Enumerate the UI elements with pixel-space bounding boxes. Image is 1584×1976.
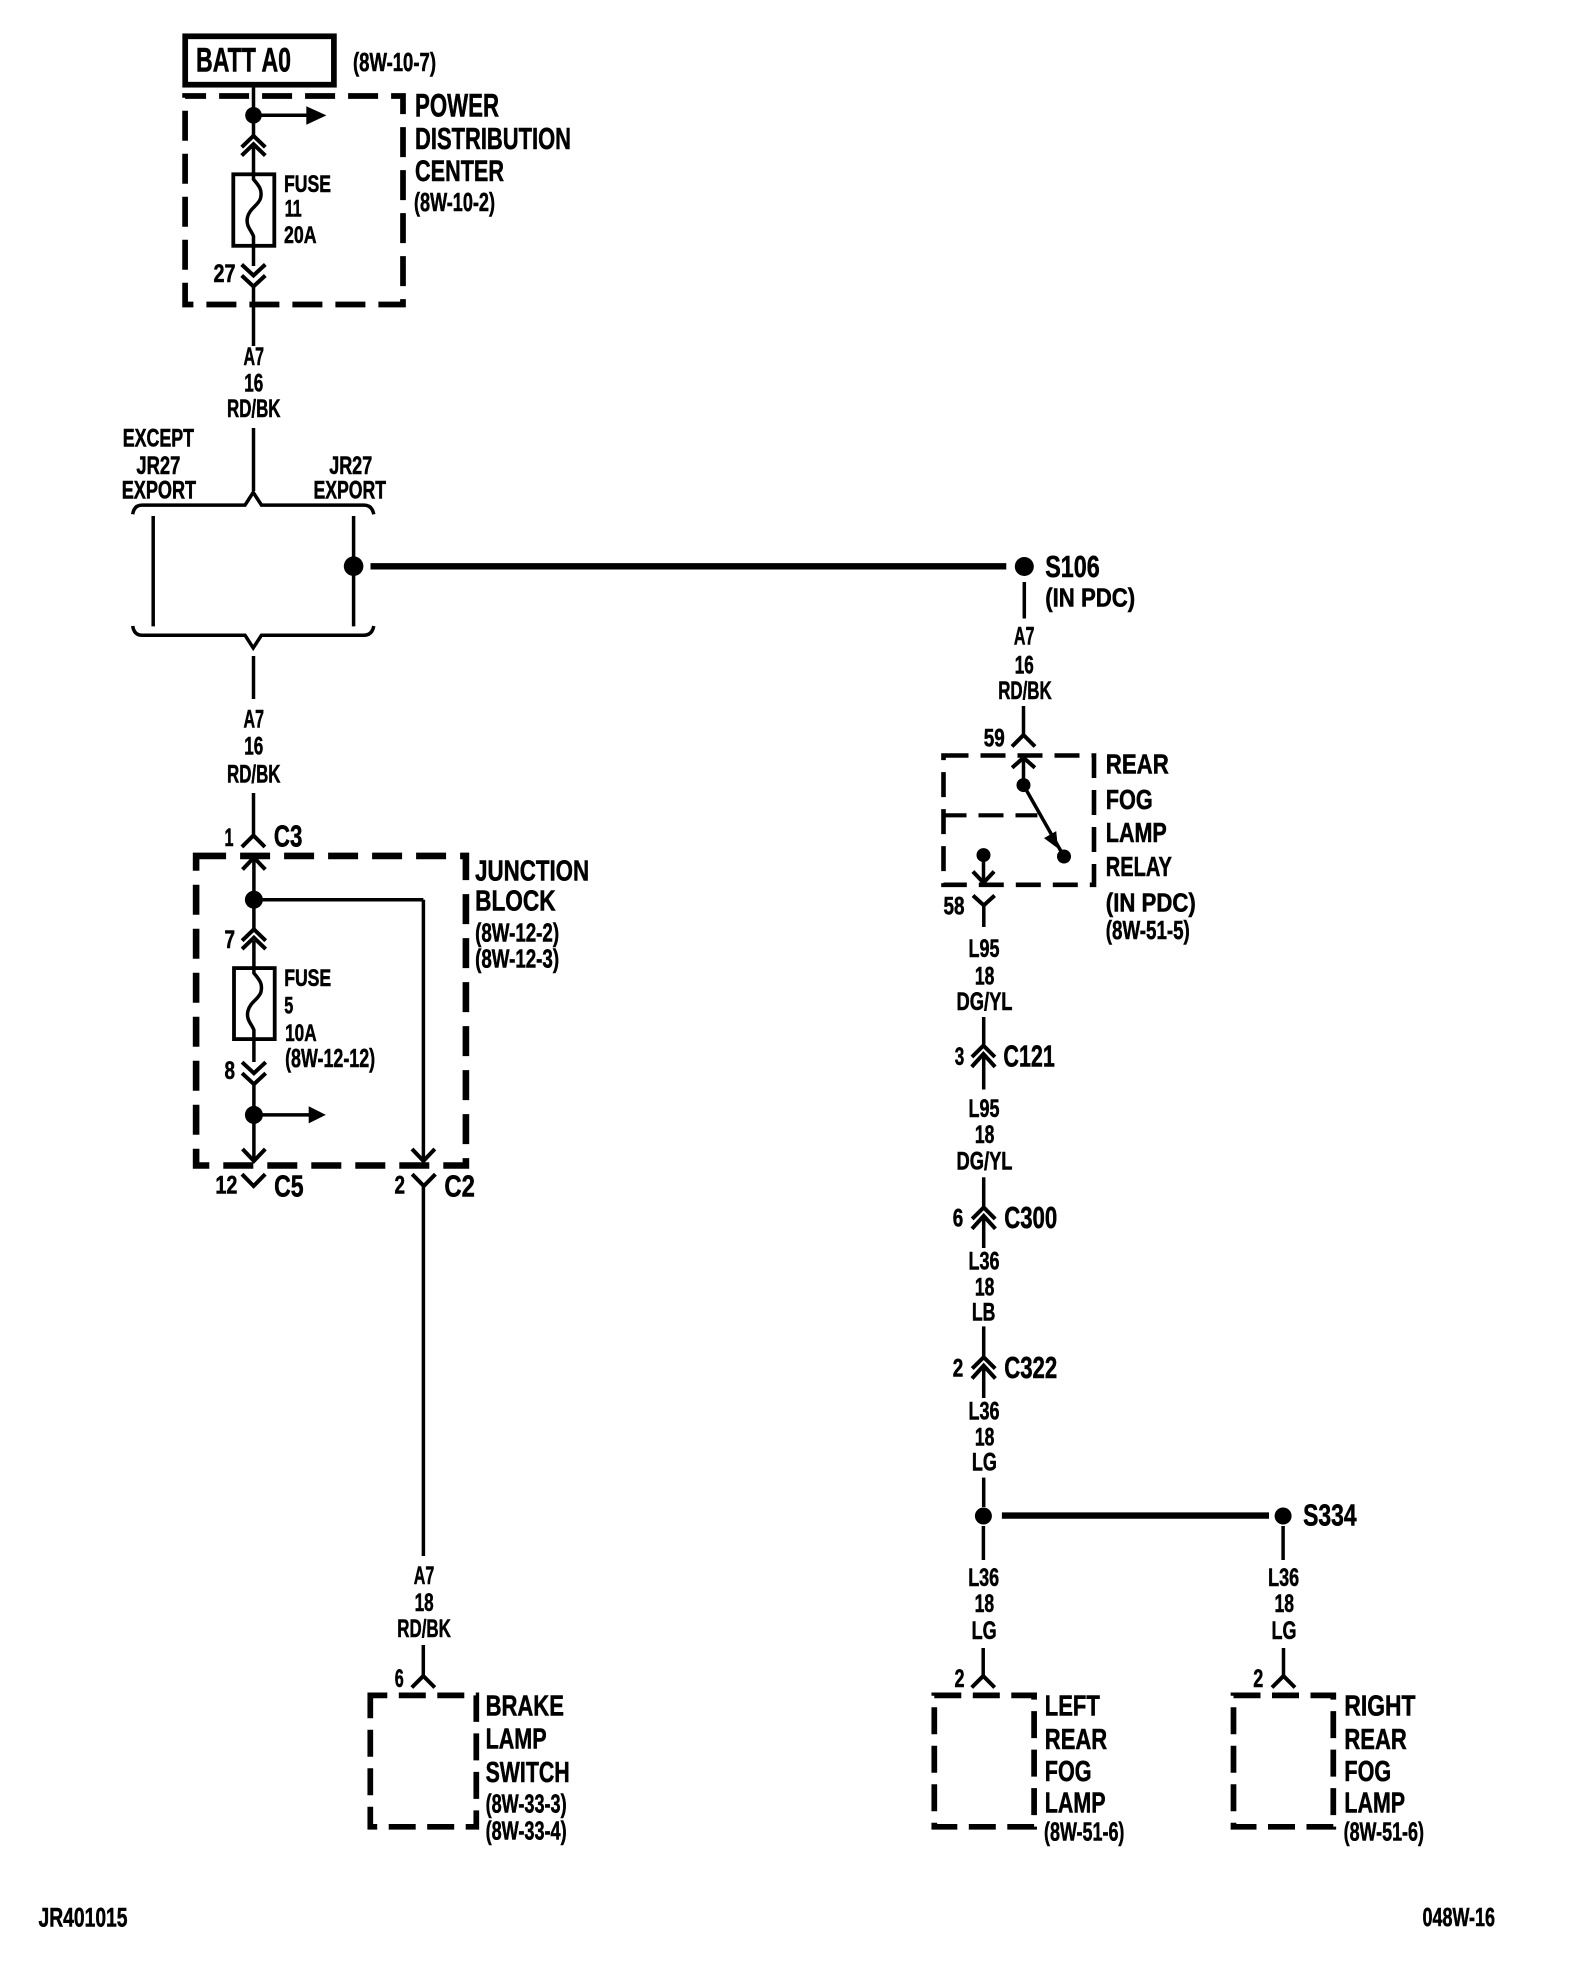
svg-text:6: 6 [953, 1205, 964, 1233]
svg-text:RD/BK: RD/BK [227, 395, 281, 423]
svg-text:C121: C121 [1003, 1038, 1055, 1073]
fuse value labels FUSE 11 20A [284, 171, 331, 249]
bottom merge brace [133, 626, 374, 648]
svg-text:16: 16 [244, 370, 263, 398]
pin 27 chevrons (double down) [242, 265, 266, 287]
right rear fog lamp dashed box [1234, 1695, 1334, 1826]
wire to C322 [982, 1326, 986, 1357]
wire to top brace [252, 428, 256, 491]
battery feed box BATT A0 [185, 36, 334, 84]
svg-text:2: 2 [395, 1172, 406, 1200]
wire leaving PDC [252, 288, 256, 347]
label JUNCTION BLOCK [475, 855, 589, 973]
svg-text:LAMP: LAMP [1045, 1787, 1106, 1819]
svg-text:REAR: REAR [1106, 748, 1169, 779]
exit arrow C5 [243, 1149, 266, 1161]
svg-text:59: 59 [984, 725, 1005, 753]
relay switch arm [1024, 785, 1063, 853]
label REAR FOG LAMP RELAY (IN PDC) (8W-51-5) [1106, 748, 1196, 945]
wire label A7 16 RD/BK (right) [998, 622, 1051, 705]
wire BATT box to node [252, 87, 256, 111]
wire fuse to pin 27 chevrons [252, 246, 256, 266]
right lamp pin 2 chevron [1272, 1676, 1295, 1688]
connector C121 chevrons pin 3 [972, 1046, 995, 1067]
cavity 8 chevrons (double down) [242, 1062, 266, 1084]
connector C322 chevrons pin 2 [972, 1357, 995, 1378]
splice S334 [1275, 1508, 1292, 1525]
node on JR27 branch [344, 556, 364, 576]
connector C3 chevron pin 1 [242, 835, 265, 847]
wire node to fuse cavity 7 [252, 903, 256, 929]
svg-text:18: 18 [1275, 1590, 1295, 1618]
svg-text:FUSE: FUSE [284, 171, 331, 198]
entry arrow into junction block [243, 858, 266, 893]
wire C322 down [982, 1366, 986, 1398]
wire node to C5 exit [252, 1119, 256, 1160]
svg-text:(8W-33-4): (8W-33-4) [486, 1816, 567, 1846]
wire C300 down [982, 1216, 986, 1248]
svg-text:(8W-51-5): (8W-51-5) [1106, 915, 1190, 945]
connector C5 chevron pin 12 [242, 1174, 265, 1186]
svg-text:18: 18 [975, 1590, 995, 1618]
svg-text:5: 5 [284, 993, 293, 1020]
pin 58 connector chevron [973, 896, 995, 928]
svg-text:(8W-10-2): (8W-10-2) [414, 187, 495, 217]
relay entry arrow pin 59 [1012, 758, 1035, 779]
svg-text:JR401015: JR401015 [39, 1903, 128, 1933]
svg-text:RELAY: RELAY [1106, 851, 1172, 882]
svg-text:1: 1 [225, 824, 234, 852]
svg-text:REAR: REAR [1045, 1724, 1107, 1756]
svg-text:RIGHT: RIGHT [1344, 1691, 1415, 1723]
svg-text:L36: L36 [1268, 1564, 1299, 1592]
svg-text:DISTRIBUTION: DISTRIBUTION [415, 121, 571, 156]
svg-text:LG: LG [972, 1449, 997, 1477]
svg-text:16: 16 [1015, 652, 1034, 680]
svg-text:EXCEPT: EXCEPT [123, 424, 194, 452]
svg-text:SWITCH: SWITCH [486, 1757, 570, 1789]
svg-text:REAR: REAR [1344, 1724, 1406, 1756]
wire fuse to cavity 8 [252, 1039, 256, 1062]
svg-text:DG/YL: DG/YL [957, 1148, 1013, 1176]
svg-text:LG: LG [972, 1617, 997, 1645]
svg-text:(8W-33-3): (8W-33-3) [486, 1788, 567, 1818]
node inside junction block [245, 891, 263, 909]
svg-text:048W-16: 048W-16 [1423, 1902, 1496, 1932]
wire label A7 18 RD/BK [397, 1562, 451, 1643]
wire label A7 16 RD/BK (first) [227, 343, 281, 423]
svg-text:2: 2 [953, 1354, 964, 1382]
svg-text:18: 18 [975, 962, 995, 990]
junction block dashed box [196, 856, 466, 1166]
wire to right lamp pin 2 [1282, 1648, 1286, 1676]
svg-text:LAMP: LAMP [486, 1724, 547, 1756]
power distribution center dashed box [185, 96, 403, 305]
svg-text:20A: 20A [284, 222, 317, 249]
label S106 (IN PDC) [1045, 549, 1135, 613]
wire to C3 [252, 793, 256, 835]
relay exit arrow pin 58 [973, 858, 994, 883]
connector C300 chevrons pin 6 [972, 1208, 995, 1229]
svg-text:8: 8 [225, 1057, 236, 1085]
svg-text:JUNCTION: JUNCTION [475, 855, 589, 887]
label LEFT REAR FOG LAMP (8W-51-6) [1044, 1691, 1124, 1847]
wire to C300 [982, 1177, 986, 1207]
wire label A7 16 RD/BK (second) [227, 705, 281, 788]
wire label L95 18 DG/YL (second) [957, 1095, 1013, 1176]
connector C2 chevron pin 2 [412, 1174, 435, 1186]
svg-text:FOG: FOG [1106, 784, 1153, 815]
svg-text:CENTER: CENTER [415, 155, 504, 188]
svg-text:3: 3 [955, 1043, 965, 1071]
wire below merge brace [252, 656, 256, 699]
svg-text:LAMP: LAMP [1344, 1787, 1405, 1819]
svg-text:C5: C5 [274, 1169, 304, 1204]
rear fog lamp relay dashed box [944, 756, 1095, 885]
svg-text:C3: C3 [274, 819, 303, 854]
svg-text:S334: S334 [1303, 1498, 1357, 1533]
wire to splice S334 line [982, 1478, 986, 1507]
svg-text:(8W-51-6): (8W-51-6) [1344, 1817, 1424, 1847]
svg-text:18: 18 [975, 1423, 995, 1451]
svg-text:2: 2 [1253, 1665, 1263, 1693]
node in PDC [245, 107, 262, 124]
svg-text:RD/BK: RD/BK [397, 1615, 451, 1643]
wire label L36 18 LB [969, 1248, 1000, 1327]
label RIGHT REAR FOG LAMP (8W-51-6) [1344, 1691, 1424, 1847]
svg-text:BLOCK: BLOCK [475, 885, 556, 917]
relay internal divider (dashed) [942, 813, 1038, 817]
svg-text:L36: L36 [969, 1248, 1000, 1276]
svg-text:POWER: POWER [415, 88, 499, 124]
svg-text:LG: LG [1272, 1617, 1297, 1645]
svg-text:6: 6 [395, 1665, 404, 1693]
svg-text:LAMP: LAMP [1106, 817, 1167, 848]
option label EXCEPT JR27 EXPORT [122, 424, 196, 504]
wire to C121 [982, 1017, 986, 1046]
left rear fog lamp dashed box [934, 1695, 1034, 1826]
svg-text:16: 16 [244, 732, 263, 760]
svg-text:L36: L36 [968, 1564, 999, 1592]
svg-text:(8W-51-6): (8W-51-6) [1044, 1817, 1124, 1847]
svg-text:(8W-12-12): (8W-12-12) [285, 1043, 375, 1073]
svg-text:18: 18 [975, 1274, 995, 1302]
svg-text:BRAKE: BRAKE [486, 1691, 564, 1723]
wire label L36 18 LG (left lamp) [968, 1564, 999, 1645]
svg-text:C2: C2 [444, 1169, 475, 1204]
svg-text:L95: L95 [969, 1095, 1000, 1123]
brake lamp switch dashed box [370, 1695, 476, 1826]
svg-text:DG/YL: DG/YL [957, 988, 1013, 1016]
wire chevrons to fuse 5 [252, 941, 256, 970]
label POWER DISTRIBUTION CENTER [414, 88, 571, 218]
wire label L95 18 DG/YL [957, 935, 1013, 1016]
left lamp pin 2 chevron [972, 1676, 995, 1688]
svg-text:27: 27 [214, 260, 236, 288]
svg-text:12: 12 [215, 1172, 237, 1200]
svg-text:LEFT: LEFT [1045, 1691, 1100, 1723]
relay contact [1057, 850, 1071, 864]
fuse 11 20A [233, 174, 274, 246]
fuse labels FUSE 5 10A (8W-12-12) [284, 965, 375, 1073]
label BRAKE LAMP SWITCH [486, 1691, 570, 1846]
svg-text:FOG: FOG [1344, 1756, 1391, 1788]
pin 59 chevron [1012, 735, 1035, 747]
svg-text:(8W-12-3): (8W-12-3) [475, 944, 559, 974]
cavity 7 chevrons [242, 929, 266, 949]
svg-text:2: 2 [955, 1665, 965, 1693]
svg-text:EXPORT: EXPORT [122, 476, 196, 504]
svg-text:18: 18 [975, 1121, 995, 1149]
svg-text:A7: A7 [244, 705, 265, 733]
wire left lamp drop [982, 1526, 986, 1560]
wire label L36 18 LG (right lamp) [1268, 1564, 1299, 1645]
wire node to C2 branch (horizontal) [254, 898, 424, 902]
wire left branch [151, 516, 155, 626]
node left of S334 [975, 1508, 992, 1525]
svg-text:A7: A7 [244, 343, 265, 371]
svg-text:A7: A7 [1014, 622, 1035, 650]
wire S106 down [1023, 582, 1027, 619]
svg-text:11: 11 [285, 196, 302, 223]
arrow to other circuits (junction block) [259, 1106, 326, 1123]
svg-text:(IN PDC): (IN PDC) [1106, 888, 1196, 918]
svg-text:58: 58 [944, 892, 965, 920]
wire label L36 18 LG [969, 1397, 1000, 1476]
option label JR27 EXPORT [314, 452, 387, 505]
fuse 5 10A [234, 968, 275, 1039]
svg-text:(IN PDC): (IN PDC) [1045, 583, 1135, 613]
svg-text:L36: L36 [969, 1397, 1000, 1425]
svg-text:(8W-10-7): (8W-10-7) [353, 47, 436, 77]
wire chevrons to fuse [252, 147, 256, 176]
wire to lower node [252, 1085, 256, 1108]
svg-text:L95: L95 [969, 935, 1000, 963]
wire C2 to brake lamp switch [422, 1186, 426, 1556]
svg-text:FUSE: FUSE [284, 965, 331, 992]
connector chevrons (fuse cavity top) [242, 136, 266, 156]
wire C121 down [982, 1054, 986, 1090]
wire to relay pin 59 [1022, 706, 1026, 735]
wire to brake lamp switch pin 6 [422, 1645, 426, 1676]
wire to S334 (thick) [1002, 1512, 1269, 1518]
svg-text:LB: LB [972, 1299, 996, 1327]
wire to left lamp pin 2 [981, 1648, 985, 1676]
svg-text:RD/BK: RD/BK [998, 677, 1051, 705]
svg-text:RD/BK: RD/BK [227, 761, 281, 789]
svg-text:A7: A7 [414, 1562, 435, 1590]
svg-text:7: 7 [225, 926, 236, 954]
svg-text:S106: S106 [1045, 549, 1100, 584]
wire C2 branch vertical [422, 900, 426, 1160]
splice S106 [1015, 557, 1034, 576]
svg-text:C300: C300 [1004, 1200, 1057, 1235]
wire to S106 (thick) [371, 563, 1007, 569]
arrow to other circuits [259, 106, 326, 125]
wire node to chevrons [252, 119, 256, 136]
svg-text:18: 18 [415, 1589, 434, 1617]
svg-text:BATT A0: BATT A0 [196, 42, 291, 80]
svg-text:FOG: FOG [1045, 1756, 1092, 1788]
top split brace [133, 492, 374, 514]
relay pin 58 contact [977, 848, 991, 862]
relay switch pivot [1017, 778, 1031, 792]
wire right lamp drop [1281, 1526, 1285, 1560]
exit arrow C2 branch [412, 1149, 435, 1161]
lower node in junction block [245, 1106, 263, 1124]
svg-text:EXPORT: EXPORT [314, 476, 387, 504]
svg-text:C322: C322 [1004, 1350, 1057, 1385]
wire right branch [352, 516, 356, 626]
pin 6 chevron [412, 1676, 435, 1688]
